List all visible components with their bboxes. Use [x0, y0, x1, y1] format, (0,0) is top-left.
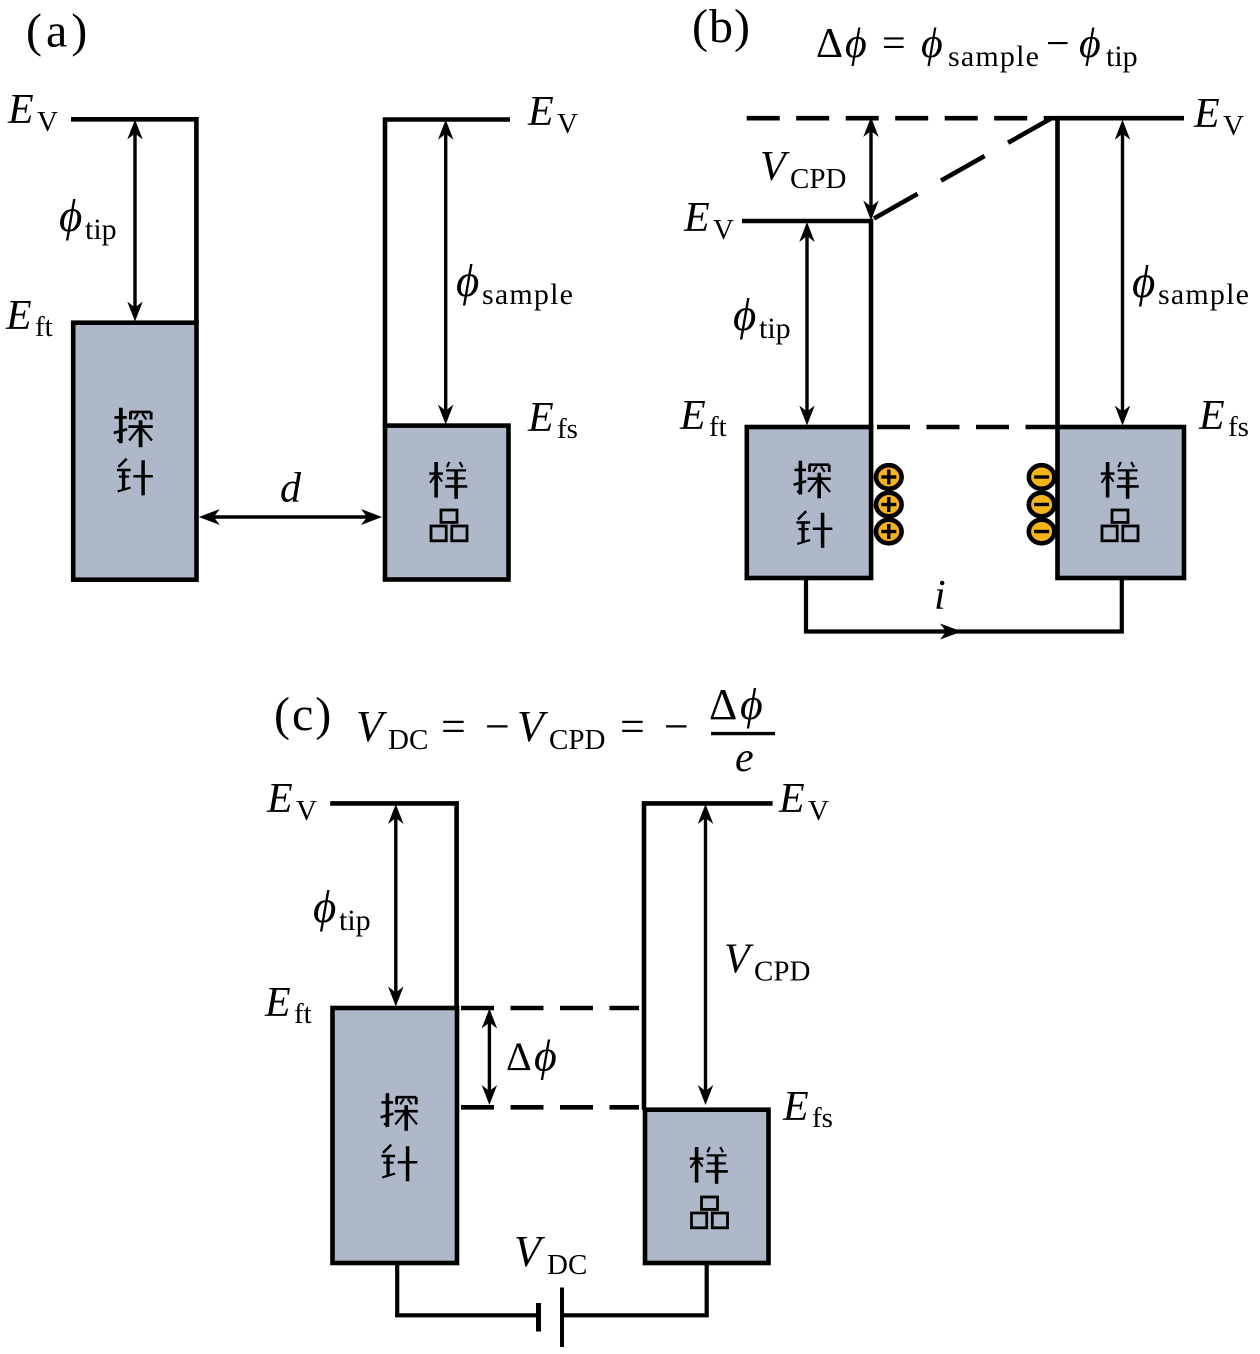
svg-text:E: E [679, 393, 706, 439]
svg-text:E: E [1198, 393, 1225, 439]
svg-text:sample: sample [482, 278, 574, 311]
svg-text:fs: fs [812, 1102, 833, 1134]
svg-text:=: = [882, 21, 906, 67]
svg-text:V: V [724, 937, 754, 983]
svg-text:E: E [782, 1084, 809, 1130]
svg-text:E: E [527, 89, 554, 135]
svg-text:V: V [296, 795, 317, 827]
svg-text:tip: tip [85, 213, 117, 246]
svg-text:E: E [7, 87, 34, 133]
svg-text:sample: sample [1158, 278, 1250, 311]
svg-text:e: e [735, 735, 754, 781]
svg-text:V: V [1223, 110, 1244, 142]
svg-text:ϕ: ϕ [1079, 21, 1101, 67]
svg-text:tip: tip [339, 904, 371, 937]
svg-text:ϕ: ϕ [534, 1032, 557, 1081]
svg-text:V: V [760, 144, 790, 190]
svg-text:Δ: Δ [709, 680, 737, 729]
svg-text:E: E [264, 980, 291, 1026]
svg-text:ϕ: ϕ [733, 290, 756, 340]
svg-text:ϕ: ϕ [1132, 257, 1155, 307]
svg-text:=: = [620, 702, 645, 751]
svg-text:d: d [280, 466, 302, 512]
svg-text:E: E [683, 195, 710, 241]
svg-text:E: E [778, 776, 805, 822]
svg-text:ft: ft [294, 998, 312, 1030]
svg-text:(c): (c) [274, 688, 333, 741]
svg-text:E: E [527, 395, 554, 441]
svg-text:i: i [934, 573, 946, 619]
svg-text:(a): (a) [26, 5, 91, 58]
svg-text:ϕ: ϕ [921, 21, 943, 67]
svg-text:ft: ft [35, 311, 53, 343]
svg-text:fs: fs [557, 413, 578, 445]
svg-text:ϕ: ϕ [456, 256, 479, 306]
svg-text:CPD: CPD [549, 724, 605, 756]
svg-text:−: − [1046, 21, 1070, 67]
svg-text:Δ: Δ [506, 1034, 532, 1079]
svg-text:E: E [1193, 91, 1220, 137]
svg-text:V: V [557, 108, 578, 140]
svg-text:−: − [664, 702, 689, 751]
svg-text:DC: DC [388, 724, 428, 756]
svg-text:E: E [266, 776, 293, 822]
svg-text:tip: tip [759, 312, 791, 345]
svg-text:fs: fs [1228, 411, 1249, 443]
svg-text:ft: ft [709, 411, 727, 443]
svg-text:V: V [713, 214, 734, 246]
svg-text:Δ: Δ [816, 21, 843, 67]
svg-text:ϕ: ϕ [845, 21, 867, 67]
svg-text:DC: DC [547, 1249, 587, 1281]
svg-text:tip: tip [1106, 40, 1138, 73]
svg-text:sample: sample [948, 40, 1040, 73]
svg-text:V: V [808, 795, 829, 827]
svg-text:=: = [441, 702, 466, 751]
svg-text:V: V [37, 106, 58, 138]
svg-text:(b): (b) [692, 0, 751, 53]
svg-text:CPD: CPD [790, 163, 846, 195]
svg-text:ϕ: ϕ [313, 882, 336, 932]
svg-text:E: E [5, 293, 32, 339]
svg-text:ϕ: ϕ [740, 680, 763, 729]
svg-text:CPD: CPD [754, 956, 810, 988]
svg-text:−: − [485, 702, 510, 751]
svg-text:ϕ: ϕ [59, 191, 82, 241]
